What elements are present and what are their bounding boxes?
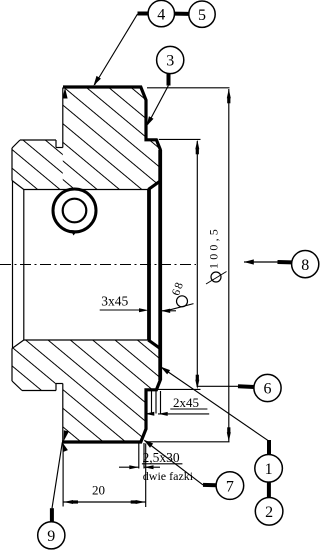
svg-text:1: 1 — [265, 461, 273, 478]
svg-text:3: 3 — [166, 53, 174, 70]
svg-text:6: 6 — [264, 381, 272, 398]
svg-text:8: 8 — [301, 257, 309, 274]
svg-text:2x45: 2x45 — [173, 395, 199, 410]
svg-text:9: 9 — [47, 528, 55, 545]
svg-text:3x45: 3x45 — [101, 294, 128, 309]
svg-text:20: 20 — [92, 482, 105, 497]
svg-text:dwie fazki: dwie fazki — [143, 469, 194, 483]
svg-text:2: 2 — [265, 504, 273, 521]
svg-text:68: 68 — [170, 280, 186, 298]
svg-text:4: 4 — [157, 6, 165, 23]
svg-text:7: 7 — [226, 478, 234, 495]
svg-text:100,5: 100,5 — [207, 226, 221, 269]
svg-text:5: 5 — [198, 7, 206, 24]
